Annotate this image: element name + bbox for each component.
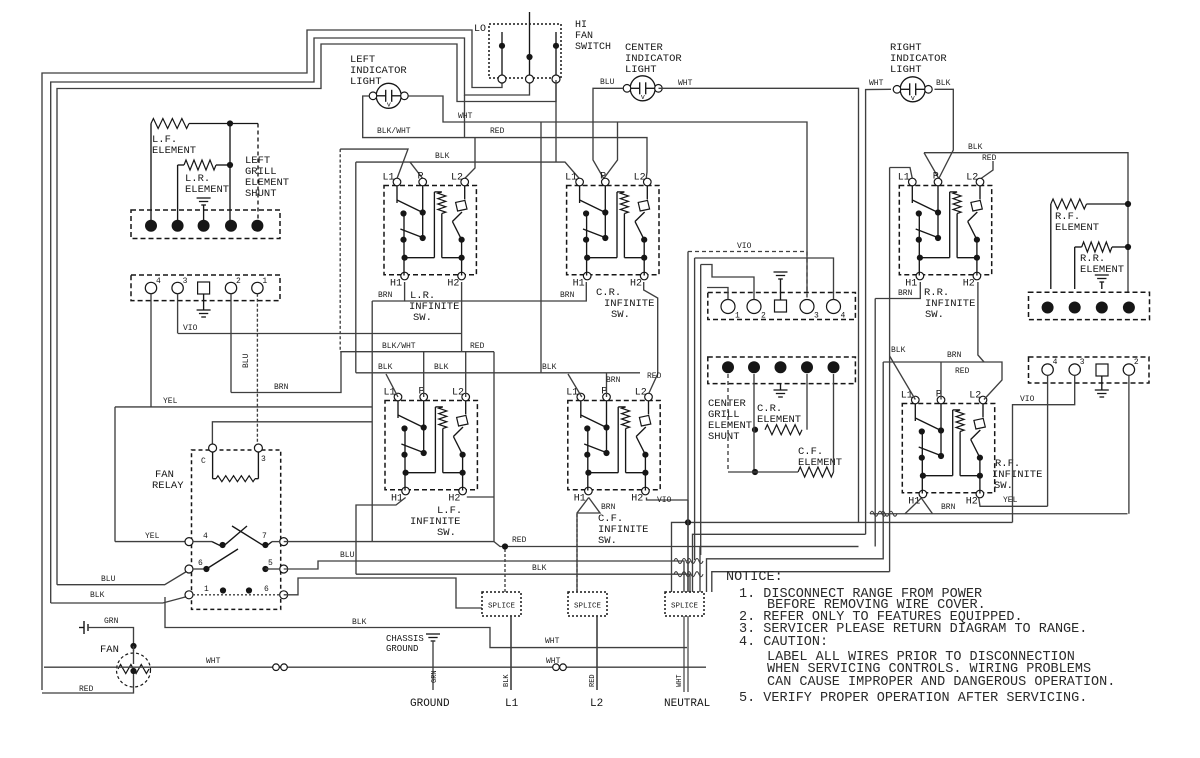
svg-text:3: 3 xyxy=(1080,358,1085,367)
svg-text:H2: H2 xyxy=(966,497,978,508)
svg-text:RED: RED xyxy=(79,685,94,694)
svg-text:BRN: BRN xyxy=(947,351,962,360)
svg-text:CAN CAUSE IMPROPER AND DANGERO: CAN CAUSE IMPROPER AND DANGEROUS OPERATI… xyxy=(767,675,1115,690)
svg-text:L2: L2 xyxy=(634,173,646,184)
svg-text:VIO: VIO xyxy=(737,242,752,251)
svg-text:L2: L2 xyxy=(635,388,647,399)
svg-text:2: 2 xyxy=(236,277,241,286)
svg-text:RED: RED xyxy=(490,127,505,136)
svg-text:L2: L2 xyxy=(966,173,978,184)
svg-text:3: 3 xyxy=(814,312,819,321)
svg-text:BLK: BLK xyxy=(532,564,547,573)
svg-text:YEL: YEL xyxy=(145,532,160,541)
svg-text:7: 7 xyxy=(262,532,267,541)
svg-text:VIO: VIO xyxy=(657,496,672,505)
svg-text:L1: L1 xyxy=(505,698,519,710)
svg-text:SW.: SW. xyxy=(994,480,1013,492)
svg-text:CHASSIS: CHASSIS xyxy=(386,634,424,644)
svg-text:SW.: SW. xyxy=(437,527,456,539)
svg-text:GRN: GRN xyxy=(431,670,439,683)
svg-text:v: v xyxy=(911,95,915,103)
svg-text:YEL: YEL xyxy=(1003,496,1018,505)
svg-text:BLK: BLK xyxy=(542,363,557,372)
svg-text:v: v xyxy=(387,101,391,109)
svg-text:WHT: WHT xyxy=(545,637,560,646)
svg-text:H2: H2 xyxy=(448,494,460,505)
svg-text:H1: H1 xyxy=(390,279,402,290)
svg-text:P: P xyxy=(933,172,939,183)
svg-text:ELEMENT: ELEMENT xyxy=(798,457,842,469)
svg-text:ELEMENT: ELEMENT xyxy=(152,145,196,157)
svg-text:1: 1 xyxy=(262,277,267,286)
svg-text:BLK: BLK xyxy=(378,363,393,372)
svg-text:6: 6 xyxy=(264,585,269,594)
svg-text:L2: L2 xyxy=(590,698,603,710)
svg-text:BRN: BRN xyxy=(378,291,393,300)
svg-text:ELEMENT: ELEMENT xyxy=(1055,222,1099,234)
svg-text:RED: RED xyxy=(647,372,662,381)
svg-text:H2: H2 xyxy=(963,279,975,290)
svg-text:2: 2 xyxy=(761,312,766,321)
svg-text:L1: L1 xyxy=(383,173,395,184)
svg-text:SW.: SW. xyxy=(925,309,944,321)
svg-text:NOTICE:: NOTICE: xyxy=(726,570,783,585)
svg-text:GROUND: GROUND xyxy=(386,644,418,654)
svg-text:BRN: BRN xyxy=(606,376,621,385)
svg-text:v: v xyxy=(641,94,645,102)
svg-text:RELAY: RELAY xyxy=(152,480,184,492)
svg-text:RED: RED xyxy=(589,674,597,687)
svg-text:LIGHT: LIGHT xyxy=(890,64,922,76)
svg-text:L1: L1 xyxy=(565,173,577,184)
svg-text:5. VERIFY PROPER OPERATION AFT: 5. VERIFY PROPER OPERATION AFTER SERVICI… xyxy=(739,691,1087,706)
svg-text:VIO: VIO xyxy=(183,324,198,333)
svg-text:5: 5 xyxy=(268,559,273,568)
svg-text:SW.: SW. xyxy=(611,309,630,321)
svg-text:LIGHT: LIGHT xyxy=(350,76,382,88)
svg-text:SPLICE: SPLICE xyxy=(574,603,602,611)
svg-text:ELEMENT: ELEMENT xyxy=(1080,264,1124,276)
svg-text:3: 3 xyxy=(183,277,188,286)
svg-text:4: 4 xyxy=(156,277,161,286)
svg-text:BRN: BRN xyxy=(274,383,289,392)
svg-text:NEUTRAL: NEUTRAL xyxy=(664,698,710,710)
svg-text:6: 6 xyxy=(198,559,203,568)
svg-text:FAN: FAN xyxy=(100,644,119,656)
svg-text:SPLICE: SPLICE xyxy=(488,603,516,611)
svg-text:1: 1 xyxy=(735,312,740,321)
svg-text:BLU: BLU xyxy=(600,78,615,87)
svg-text:WHT: WHT xyxy=(458,112,473,121)
svg-text:L2: L2 xyxy=(451,173,463,184)
svg-text:BLK/WHT: BLK/WHT xyxy=(382,342,416,351)
svg-text:WHT: WHT xyxy=(206,657,221,666)
svg-text:BLU: BLU xyxy=(242,353,251,368)
svg-text:P: P xyxy=(600,172,606,183)
svg-text:RED: RED xyxy=(982,154,997,163)
svg-text:3: 3 xyxy=(261,455,266,464)
svg-text:C: C xyxy=(201,457,206,466)
svg-text:BLK: BLK xyxy=(352,618,367,627)
svg-text:1: 1 xyxy=(204,585,209,594)
svg-text:H1: H1 xyxy=(391,494,403,505)
svg-text:YEL: YEL xyxy=(163,397,178,406)
svg-text:H2: H2 xyxy=(447,279,459,290)
svg-text:RED: RED xyxy=(470,342,485,351)
svg-text:BLK: BLK xyxy=(936,79,951,88)
svg-text:H1: H1 xyxy=(905,279,917,290)
svg-text:GROUND: GROUND xyxy=(410,698,450,710)
svg-text:H1: H1 xyxy=(908,497,920,508)
svg-text:BLK: BLK xyxy=(435,152,450,161)
svg-text:SW.: SW. xyxy=(413,312,432,324)
svg-text:RED: RED xyxy=(512,536,527,545)
svg-text:L2: L2 xyxy=(452,388,464,399)
svg-text:BRN: BRN xyxy=(941,503,956,512)
svg-text:HI: HI xyxy=(575,20,587,31)
svg-text:L1: L1 xyxy=(898,173,910,184)
svg-text:BLK: BLK xyxy=(891,346,906,355)
svg-text:LIGHT: LIGHT xyxy=(625,64,657,76)
svg-text:H2: H2 xyxy=(630,279,642,290)
svg-text:ELEMENT: ELEMENT xyxy=(757,414,801,426)
svg-text:BLK: BLK xyxy=(434,363,449,372)
svg-text:WHT: WHT xyxy=(676,674,684,687)
svg-text:BRN: BRN xyxy=(560,291,575,300)
svg-text:SHUNT: SHUNT xyxy=(708,431,740,443)
svg-text:GRN: GRN xyxy=(104,617,119,626)
svg-text:4. CAUTION:: 4. CAUTION: xyxy=(739,635,828,650)
svg-text:SW.: SW. xyxy=(598,535,617,547)
svg-text:VIO: VIO xyxy=(1020,395,1035,404)
svg-text:FAN: FAN xyxy=(575,31,593,42)
svg-text:SHUNT: SHUNT xyxy=(245,188,277,200)
svg-text:H2: H2 xyxy=(631,494,643,505)
svg-text:4: 4 xyxy=(1053,358,1058,367)
svg-text:P: P xyxy=(418,172,424,183)
svg-text:H1: H1 xyxy=(573,279,585,290)
svg-text:BRN: BRN xyxy=(898,289,913,298)
svg-text:BLK: BLK xyxy=(503,674,511,687)
svg-text:4: 4 xyxy=(203,532,208,541)
svg-text:BLK: BLK xyxy=(968,143,983,152)
svg-text:RED: RED xyxy=(955,367,970,376)
svg-text:4: 4 xyxy=(841,312,846,321)
svg-text:SWITCH: SWITCH xyxy=(575,42,611,53)
svg-text:WHT: WHT xyxy=(678,79,693,88)
svg-text:ELEMENT: ELEMENT xyxy=(185,184,229,196)
svg-text:BLK/WHT: BLK/WHT xyxy=(377,127,411,136)
svg-text:WHT: WHT xyxy=(869,79,884,88)
svg-text:BLK: BLK xyxy=(90,591,105,600)
svg-text:SPLICE: SPLICE xyxy=(671,603,699,611)
svg-text:BLU: BLU xyxy=(101,575,116,584)
svg-text:L2: L2 xyxy=(969,391,981,402)
svg-text:LO: LO xyxy=(474,24,486,35)
svg-text:BLU: BLU xyxy=(340,551,355,560)
svg-text:BRN: BRN xyxy=(601,503,616,512)
svg-text:2: 2 xyxy=(1134,358,1139,367)
